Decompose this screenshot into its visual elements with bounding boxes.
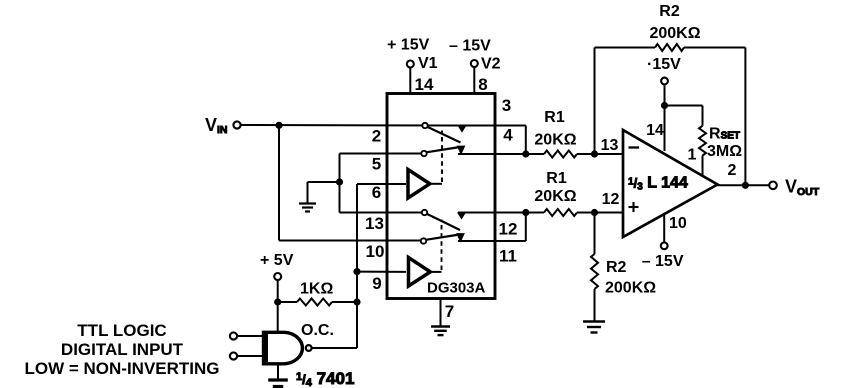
svg-text:TTL LOGIC: TTL LOGIC [77, 321, 166, 340]
svg-text:10: 10 [669, 215, 687, 232]
svg-text:RSET: RSET [709, 126, 740, 143]
svg-text:20KΩ: 20KΩ [534, 188, 576, 205]
svg-text:1: 1 [688, 147, 697, 164]
svg-text:1/3 L 144: 1/3 L 144 [628, 175, 688, 193]
svg-text:R2: R2 [659, 3, 680, 20]
svg-text:VOUT: VOUT [785, 177, 820, 199]
svg-text:R2: R2 [606, 259, 627, 276]
svg-text:– 15V: – 15V [642, 253, 684, 270]
svg-text:1KΩ: 1KΩ [300, 281, 333, 298]
svg-text:14: 14 [646, 122, 664, 139]
svg-text:+ 5V: + 5V [260, 252, 294, 269]
svg-text:7: 7 [445, 302, 454, 321]
svg-text:3MΩ: 3MΩ [707, 143, 742, 160]
svg-text:8: 8 [478, 75, 487, 94]
svg-text:20KΩ: 20KΩ [534, 132, 576, 149]
svg-text:– 15V: – 15V [449, 38, 491, 55]
svg-text:5: 5 [372, 155, 381, 174]
svg-text:13: 13 [365, 214, 384, 233]
svg-text:O.C.: O.C. [301, 322, 334, 339]
svg-text:11: 11 [499, 247, 517, 266]
svg-text:3: 3 [502, 96, 511, 115]
svg-text:+ 15V: + 15V [387, 37, 430, 54]
svg-text:9: 9 [372, 274, 381, 293]
svg-text:1/4 7401: 1/4 7401 [296, 369, 354, 388]
svg-text:200KΩ: 200KΩ [605, 280, 656, 297]
svg-text:4: 4 [503, 126, 513, 145]
svg-text:200KΩ: 200KΩ [649, 25, 700, 42]
svg-text:LOW = NON-INVERTING: LOW = NON-INVERTING [24, 359, 219, 378]
svg-text:·15V: ·15V [647, 56, 681, 73]
svg-text:DIGITAL INPUT: DIGITAL INPUT [61, 340, 184, 359]
svg-text:V2: V2 [481, 56, 501, 73]
svg-text:R1: R1 [546, 170, 567, 187]
svg-text:2: 2 [372, 127, 381, 146]
svg-text:14: 14 [415, 75, 434, 94]
svg-text:2: 2 [728, 162, 737, 179]
svg-text:12: 12 [499, 220, 518, 239]
svg-text:VIN: VIN [205, 115, 228, 136]
svg-text:DG303A: DG303A [427, 280, 486, 297]
svg-text:6: 6 [372, 183, 381, 202]
svg-text:10: 10 [366, 242, 385, 261]
svg-text:V1: V1 [418, 55, 438, 72]
svg-text:12: 12 [602, 191, 620, 208]
svg-text:13: 13 [601, 137, 619, 154]
svg-text:R1: R1 [544, 109, 565, 126]
